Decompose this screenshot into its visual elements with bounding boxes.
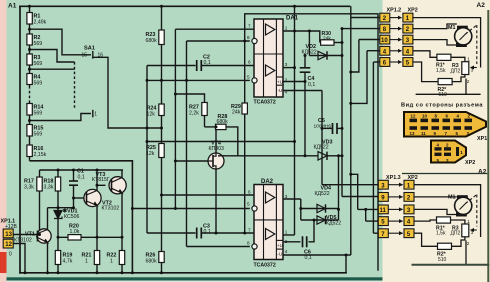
wire: XP2 pin3 row to motor bottom	[413, 40, 457, 45]
resistor R4	[27, 74, 32, 85]
wire: R26 line down to 0V	[161, 195, 163, 252]
wire: bus drop x350.8	[350, 6, 352, 255]
wire: R24 to R25	[161, 116, 163, 144]
wire: x322 vertical to row3	[321, 91, 323, 185]
resistor R27	[202, 103, 207, 116]
resistor R2*	[438, 79, 452, 85]
wire: x338.5 vertical	[338, 156, 340, 220]
svg-text:1: 1	[467, 57, 470, 62]
resistor R17	[37, 177, 42, 191]
wire: C2 row to DA1 pin6	[147, 65, 196, 67]
svg-text:КП303: КП303	[209, 146, 225, 152]
svg-text:XP2: XP2	[465, 160, 475, 166]
op-amp IC DA1 TCA0372	[254, 19, 283, 97]
wire: A2 lower box top	[402, 173, 487, 175]
svg-text:0,1: 0,1	[305, 255, 312, 261]
svg-text:0,1: 0,1	[204, 60, 211, 66]
resistor R1* lower	[437, 217, 451, 223]
svg-text:3,3k: 3,3k	[44, 185, 54, 191]
svg-text:6: 6	[248, 190, 251, 195]
svg-text:0,1: 0,1	[308, 82, 315, 88]
capacitor C3	[197, 228, 202, 239]
resistor R16	[27, 145, 32, 157]
wiper arrow to pot lower	[471, 229, 477, 231]
wire: DA1 pin5 row	[147, 79, 250, 81]
svg-text:12: 12	[411, 114, 416, 119]
resistor R25	[159, 144, 164, 158]
svg-text:10: 10	[381, 38, 388, 44]
diode VD5	[317, 216, 326, 224]
connector XP1.1 pin 12	[3, 239, 13, 248]
svg-text:M1: M1	[448, 25, 456, 31]
pin 5 inversion circle	[252, 206, 257, 211]
svg-text:ДП2: ДП2	[451, 68, 461, 74]
switch SA1 contact arm 15	[92, 51, 94, 59]
svg-text:ДП2: ДП2	[451, 231, 461, 237]
svg-text:0,1: 0,1	[204, 229, 211, 235]
wire: XP2 pin1 row to pot wiper net	[414, 185, 481, 237]
wire: R25 down to DA2 pin6 row	[162, 158, 255, 196]
wire: SA1 common pin 16	[93, 57, 162, 128]
svg-text:7: 7	[248, 228, 251, 233]
wire: VT4 source	[215, 169, 217, 233]
wire: x186.5 vertical DA pin8 net	[186, 41, 188, 247]
wire: XP1.2 pin8 row	[342, 28, 380, 30]
wire: R23 to R24	[161, 45, 163, 105]
wire: VT4 gate	[175, 160, 208, 162]
wiper arrow to pot	[471, 67, 477, 69]
wire: XP1.3 row9	[342, 196, 378, 198]
wire: VD4 row	[301, 208, 339, 210]
wire: VD4/VD5 left vertical	[300, 199, 302, 220]
wire: A1 left border / left bus	[19, 6, 21, 273]
svg-text:1: 1	[85, 259, 88, 265]
svg-text:680k: 680k	[146, 259, 158, 265]
wire: DA1 pin4 row	[283, 90, 322, 92]
svg-text:TCA0372: TCA0372	[254, 100, 276, 106]
wire: R27 bottom to R28 row	[204, 116, 206, 127]
resistor R2	[27, 34, 32, 45]
wire: VD3 row y155.8	[218, 155, 318, 157]
pin 8 inversion circle	[252, 38, 257, 43]
wire: x147 vertical C2/C3 net	[146, 66, 148, 234]
wire: XP1.3 row11	[358, 208, 379, 210]
wire: DA1 pin1 row	[283, 31, 320, 43]
wire: R1* to pot pin1	[451, 57, 465, 61]
resistor R1	[27, 13, 32, 25]
resistor R15	[27, 125, 32, 137]
wire: VT1 collector	[47, 208, 49, 230]
resistor R3	[27, 54, 32, 65]
pink page edge strip	[0, 0, 7, 282]
pin 5 inversion circle	[252, 78, 257, 83]
zener diode VD1	[54, 211, 62, 219]
wire: R30 right	[334, 42, 342, 44]
svg-text:1,5k: 1,5k	[436, 231, 446, 237]
pin 8 inversion circle	[252, 244, 257, 249]
svg-text:DA2: DA2	[261, 179, 274, 185]
wire: C4 line	[304, 56, 306, 68]
wire: tap R2/R3	[30, 50, 75, 63]
wire: XP2 pin2 row to motor top	[413, 24, 457, 29]
wire: VT3 emitter	[121, 193, 123, 237]
dark green bottom edge line	[7, 277, 383, 280]
svg-text:680k: 680k	[217, 119, 229, 125]
op-amp IC DA2 TCA0372	[254, 185, 283, 260]
svg-text:A1: A1	[8, 3, 17, 10]
transistor VT1	[37, 229, 51, 243]
wire: x294.5 main vertical	[294, 6, 296, 235]
diode VD3	[318, 152, 327, 160]
svg-text:5: 5	[247, 202, 250, 207]
wire: DA2 pin8 row	[187, 246, 250, 248]
wire: R1* to pot pin1	[451, 220, 465, 224]
wire: VT4 drain	[215, 127, 217, 153]
wire: x305 long vertical	[304, 82, 306, 156]
svg-text:8: 8	[247, 241, 250, 246]
wire: y141.5 long row	[147, 141, 295, 143]
svg-text:3: 3	[285, 62, 288, 67]
wire: chain dashed omitted section	[29, 86, 31, 102]
wire: DA2 pin4 row	[283, 254, 351, 256]
wire: x342 vertical	[341, 29, 343, 197]
wire: chain lower section	[29, 102, 31, 161]
wire: XP1.2 pin6 row	[373, 61, 379, 63]
wire: XP1.2 pin2 stub	[351, 17, 380, 19]
switch SA1 contact arm 1	[92, 110, 94, 118]
resistor R29	[242, 103, 247, 114]
svg-text:680k: 680k	[146, 38, 158, 44]
svg-text:11: 11	[380, 208, 387, 214]
wire: R1-R16 chain vertical	[29, 6, 31, 86]
svg-text:A2: A2	[477, 2, 486, 9]
svg-text:КС506: КС506	[64, 214, 79, 220]
svg-text:3: 3	[471, 68, 474, 73]
wire: C1 line	[73, 170, 75, 181]
svg-text:КТ3102: КТ3102	[14, 237, 32, 243]
diode VD2	[318, 51, 327, 59]
svg-text:569: 569	[34, 111, 43, 117]
capacitor C6	[303, 236, 307, 247]
resistor R2* lower	[438, 243, 452, 249]
red page marker	[0, 252, 7, 273]
svg-text:569: 569	[34, 61, 43, 67]
svg-text:7: 7	[248, 24, 251, 29]
wire: collector row y170	[40, 169, 124, 171]
connector XP1 drawing	[404, 112, 486, 137]
connector XP1.3 pins	[378, 180, 388, 237]
resistor R24	[159, 104, 164, 116]
capacitor C1	[69, 181, 78, 185]
connector XP2 drawing	[431, 141, 466, 163]
transistor VT4 (JFET)	[208, 153, 224, 169]
op-amp triangle 1	[266, 24, 275, 35]
right page frame line	[487, 10, 489, 282]
wire: XP1.1 pin12 to 0V bus	[13, 244, 25, 273]
wire: VT3 collector	[121, 170, 123, 178]
svg-text:13: 13	[5, 232, 12, 238]
svg-text:1: 1	[285, 26, 288, 31]
potentiometer R3 upper	[462, 62, 469, 75]
svg-text:TCA0372: TCA0372	[254, 263, 276, 269]
motor M1 upper	[455, 26, 472, 46]
svg-text:5: 5	[247, 75, 250, 80]
svg-text:1: 1	[460, 150, 463, 155]
svg-text:+U: +U	[277, 243, 283, 248]
mechanical link dashed lower	[466, 195, 477, 227]
diode VD4	[317, 204, 326, 212]
wire: R19 bottom run	[96, 237, 98, 272]
wire: jog to row11	[351, 174, 358, 209]
wire: C3 row to DA2 pin7	[147, 232, 196, 234]
wire: C5 row	[322, 127, 332, 129]
wire: bias bus y160.5	[30, 161, 133, 273]
svg-text:569: 569	[34, 132, 43, 138]
svg-text:510: 510	[438, 257, 447, 263]
svg-text:M1: M1	[448, 195, 456, 201]
wire: x175 vertical pin7 feed	[174, 29, 176, 208]
resistor R19	[55, 251, 60, 265]
wire: tap R1/R2 to SA1 contact 15	[30, 29, 92, 55]
wire: mating arrows XP1.3-XP2	[388, 185, 402, 234]
wire: VD1/C1 node row	[48, 207, 74, 209]
wire: DA2 pin5 row	[132, 208, 249, 210]
wire: A2 lower box bottom	[412, 264, 490, 266]
wire: pot pin2 down	[465, 241, 467, 265]
connector XP1.2 pins	[380, 13, 390, 66]
op-amp triangle 2	[266, 65, 275, 76]
svg-text:13: 13	[410, 131, 415, 136]
svg-text:24k: 24k	[232, 110, 241, 116]
wire: pin4 corner to 0V	[345, 255, 347, 273]
wire: R29 line	[244, 14, 246, 103]
wire: VT3 base from VT2 collector	[97, 184, 106, 186]
resistor R22	[119, 251, 124, 265]
svg-text:11: 11	[421, 131, 426, 136]
svg-text:КД522: КД522	[326, 220, 341, 226]
wire: VD2 left vertical	[308, 31, 310, 56]
svg-text:-U: -U	[277, 88, 282, 93]
connector XP2 upper pins	[403, 13, 413, 66]
motor M1 lower	[455, 196, 472, 216]
svg-text:Вид со стороны разъема: Вид со стороны разъема	[401, 103, 483, 109]
op-amp triangle 1	[266, 192, 275, 203]
svg-text:3: 3	[471, 230, 474, 235]
transistor VT2	[84, 189, 101, 206]
connector XP1.1 pin 13	[3, 229, 13, 238]
svg-text:A2: A2	[478, 169, 487, 176]
wire: row5 step	[365, 209, 367, 221]
svg-text:1: 1	[467, 219, 470, 224]
svg-text:2,49k: 2,49k	[34, 20, 47, 26]
wire: SA1 dashed contact row	[74, 62, 76, 108]
wire: XP2 pin2 row to motor top	[414, 196, 457, 198]
wire: R27 branch	[175, 94, 204, 103]
svg-text:4,7k: 4,7k	[63, 259, 73, 265]
wire: XP2 pin4 row to R1*	[414, 220, 437, 221]
wire: R17 bottom to VT1 base wire	[39, 191, 41, 235]
svg-text:0,1: 0,1	[78, 174, 85, 180]
svg-text:569: 569	[34, 81, 43, 87]
resistor R28	[216, 124, 227, 129]
wire: VD1/R19 line	[57, 208, 59, 273]
svg-text:1: 1	[285, 230, 288, 235]
wire: x358.9 drop to bus line	[351, 40, 359, 73]
wire: VT2 emitter	[96, 206, 98, 238]
svg-text:+U: +U	[277, 80, 283, 85]
svg-text:6: 6	[248, 60, 251, 65]
op-amp triangle 2	[266, 229, 275, 240]
wire: R2* to pot pin2	[452, 75, 465, 82]
svg-text:КТ815Г: КТ815Г	[92, 177, 110, 183]
resistor R26	[159, 252, 164, 263]
wire: XP1.3 row3	[322, 184, 378, 186]
resistor R18	[55, 177, 60, 191]
svg-text:КД522: КД522	[314, 145, 329, 151]
resistor R30	[321, 40, 334, 45]
wire: tap R3/R4	[30, 68, 75, 70]
wire: pot pin2 down	[465, 79, 467, 95]
svg-text:1: 1	[94, 111, 97, 117]
capacitor C4	[300, 68, 311, 72]
wire: XP1.1 pin13 to VT1 base	[13, 234, 37, 236]
wire: A1 right border segment	[245, 14, 378, 270]
wire: x367 drop to bus line	[351, 51, 367, 104]
capacitor C2	[197, 60, 202, 71]
svg-text:12k: 12k	[146, 151, 155, 157]
svg-text:24k: 24k	[323, 35, 331, 41]
svg-text:3: 3	[285, 194, 288, 199]
svg-text:2: 2	[467, 241, 470, 246]
svg-text:XP1.2: XP1.2	[387, 8, 402, 14]
wire: DA1 pin2 row	[283, 81, 305, 83]
svg-text:2,15k: 2,15k	[34, 152, 47, 158]
green schematic panel	[7, 0, 383, 282]
wire: DA1 pin8 row	[187, 40, 250, 42]
wire: R18 top	[57, 170, 59, 177]
wire: R28 row	[205, 126, 216, 128]
capacitor C5	[333, 123, 338, 134]
svg-text:12k: 12k	[147, 112, 156, 118]
svg-text:0: 0	[9, 252, 12, 258]
wire: XP1.2 pin4 row	[367, 50, 380, 52]
svg-text:C5: C5	[318, 118, 325, 124]
node dots	[28, 5, 31, 8]
wire: R23 top	[161, 6, 163, 30]
wire: XP2 pin3 row to motor bottom	[414, 209, 456, 214]
svg-text:XP1: XP1	[477, 136, 487, 142]
connector XP2 lower pins	[404, 180, 414, 237]
wire: XP2 pin1 row to pot wiper net	[413, 18, 481, 68]
svg-text:2: 2	[467, 79, 470, 84]
wire: XP2 pin4 row to R1*	[413, 51, 437, 58]
resistor R21	[94, 251, 99, 265]
svg-text:510: 510	[439, 92, 448, 98]
svg-text:16: 16	[98, 52, 104, 58]
resistor R23	[159, 30, 164, 45]
svg-text:1: 1	[110, 259, 113, 265]
wire: XP2 pin5 row to R2*	[414, 233, 438, 246]
svg-text:569: 569	[34, 41, 43, 47]
wire: DA1 pin7 row	[175, 28, 254, 30]
svg-text:SA1: SA1	[84, 46, 95, 52]
resistor R1*	[437, 54, 451, 60]
wire: A2 box bottom	[416, 93, 481, 95]
wire: top +12V bus	[20, 5, 350, 7]
wire: DA1 pin3 row	[283, 67, 295, 69]
svg-text:XP2: XP2	[408, 8, 418, 14]
svg-text:8: 8	[247, 35, 250, 40]
wire: R2* to pot pin2	[450, 237, 465, 247]
wire: XP2 pin5 row to R2*	[413, 62, 438, 82]
svg-text:1,0k: 1,0k	[70, 229, 80, 235]
svg-text:12: 12	[5, 242, 12, 248]
wire: VT4 drain to VD3 row	[216, 153, 218, 156]
wire: DA2 pin3 row	[283, 198, 301, 200]
wire: VT2 base	[74, 197, 87, 199]
wire: XP1.3 row5	[366, 220, 379, 222]
resistor R20	[68, 235, 81, 240]
wire: R18 bottom to node	[57, 191, 59, 208]
svg-text:КТ3102: КТ3102	[102, 205, 120, 211]
wire: XP1.2 pin10 row	[359, 39, 380, 41]
svg-text:3,3k: 3,3k	[24, 185, 34, 191]
wire: x373.4 vertical	[372, 62, 374, 233]
wire: DA2 pin1 row	[283, 234, 295, 236]
wire: R20 row	[58, 236, 122, 238]
wire: VD2 row	[309, 55, 342, 57]
svg-text:-U: -U	[277, 252, 282, 257]
wire: XP1.3 row7	[373, 232, 378, 234]
wire: VT2 collector	[96, 170, 98, 191]
svg-text:4: 4	[285, 249, 288, 254]
wire: tap R14/R15 to SA1 contact 1	[30, 114, 92, 121]
potentiometer R3 lower	[462, 224, 469, 237]
wire: DA2 pin2/C6 row	[283, 241, 301, 243]
svg-text:DA1: DA1	[286, 16, 299, 22]
svg-text:15: 15	[82, 52, 88, 58]
wire: bottom 0V bus	[20, 272, 346, 274]
wire: VT1 emitter	[47, 243, 49, 273]
transistor VT3	[109, 177, 126, 194]
svg-text:КД522: КД522	[302, 49, 317, 55]
mechanical link dashed	[466, 25, 477, 64]
svg-text:2,2k: 2,2k	[189, 111, 199, 117]
svg-text:КД522: КД522	[315, 191, 330, 197]
wire: VD5 row	[301, 219, 339, 221]
wire: mating arrows XP1.2-XP2	[390, 18, 402, 62]
svg-text:10: 10	[422, 114, 427, 119]
resistor R14	[27, 104, 32, 116]
svg-text:1,5k: 1,5k	[436, 68, 446, 74]
wire: R17 top stub	[39, 170, 41, 177]
